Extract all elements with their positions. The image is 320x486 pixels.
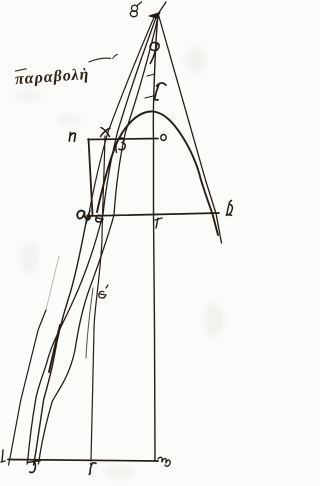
label o [161, 135, 166, 141]
overdrawn stroke on tau pair [49, 325, 60, 372]
label delta (apex) [130, 2, 141, 17]
label x [101, 128, 111, 137]
vertical n-a [89, 139, 93, 215]
line apex to tau via e-side (U2) [27, 15, 157, 464]
label t [155, 218, 162, 228]
label b [226, 200, 232, 215]
label n [69, 133, 75, 142]
caption παραβολή [14, 54, 120, 88]
line a to tau [34, 211, 91, 465]
line apex to b [159, 15, 222, 243]
label a [77, 211, 86, 219]
label e [96, 215, 103, 222]
tick at r [145, 96, 153, 98]
axis delta-m [153, 15, 158, 461]
line above apex [158, 2, 166, 14]
label beta [116, 138, 125, 153]
line apex to tau (U3) [39, 15, 159, 464]
parabola curve e-beta-peak-b [97, 111, 218, 235]
label c [89, 463, 96, 475]
tick at psi [147, 74, 155, 76]
label l [1, 450, 5, 462]
line apex to a (U1) [86, 15, 155, 224]
label e-prime [99, 285, 108, 298]
retraced stroke beside vertical [86, 288, 93, 358]
horizontal a-b [87, 213, 219, 216]
label r on axis [154, 83, 166, 100]
label m [158, 457, 170, 466]
horizontal n-o [88, 139, 158, 140]
ink blob at a knot [86, 214, 92, 222]
apex point mark [149, 13, 160, 19]
line to l [9, 310, 47, 465]
vertical x-c (V2) [91, 136, 105, 461]
horizontal l-m [8, 460, 158, 462]
label psi on axis [150, 42, 159, 63]
line to l (faded start) [46, 256, 59, 310]
label tau [28, 461, 41, 473]
